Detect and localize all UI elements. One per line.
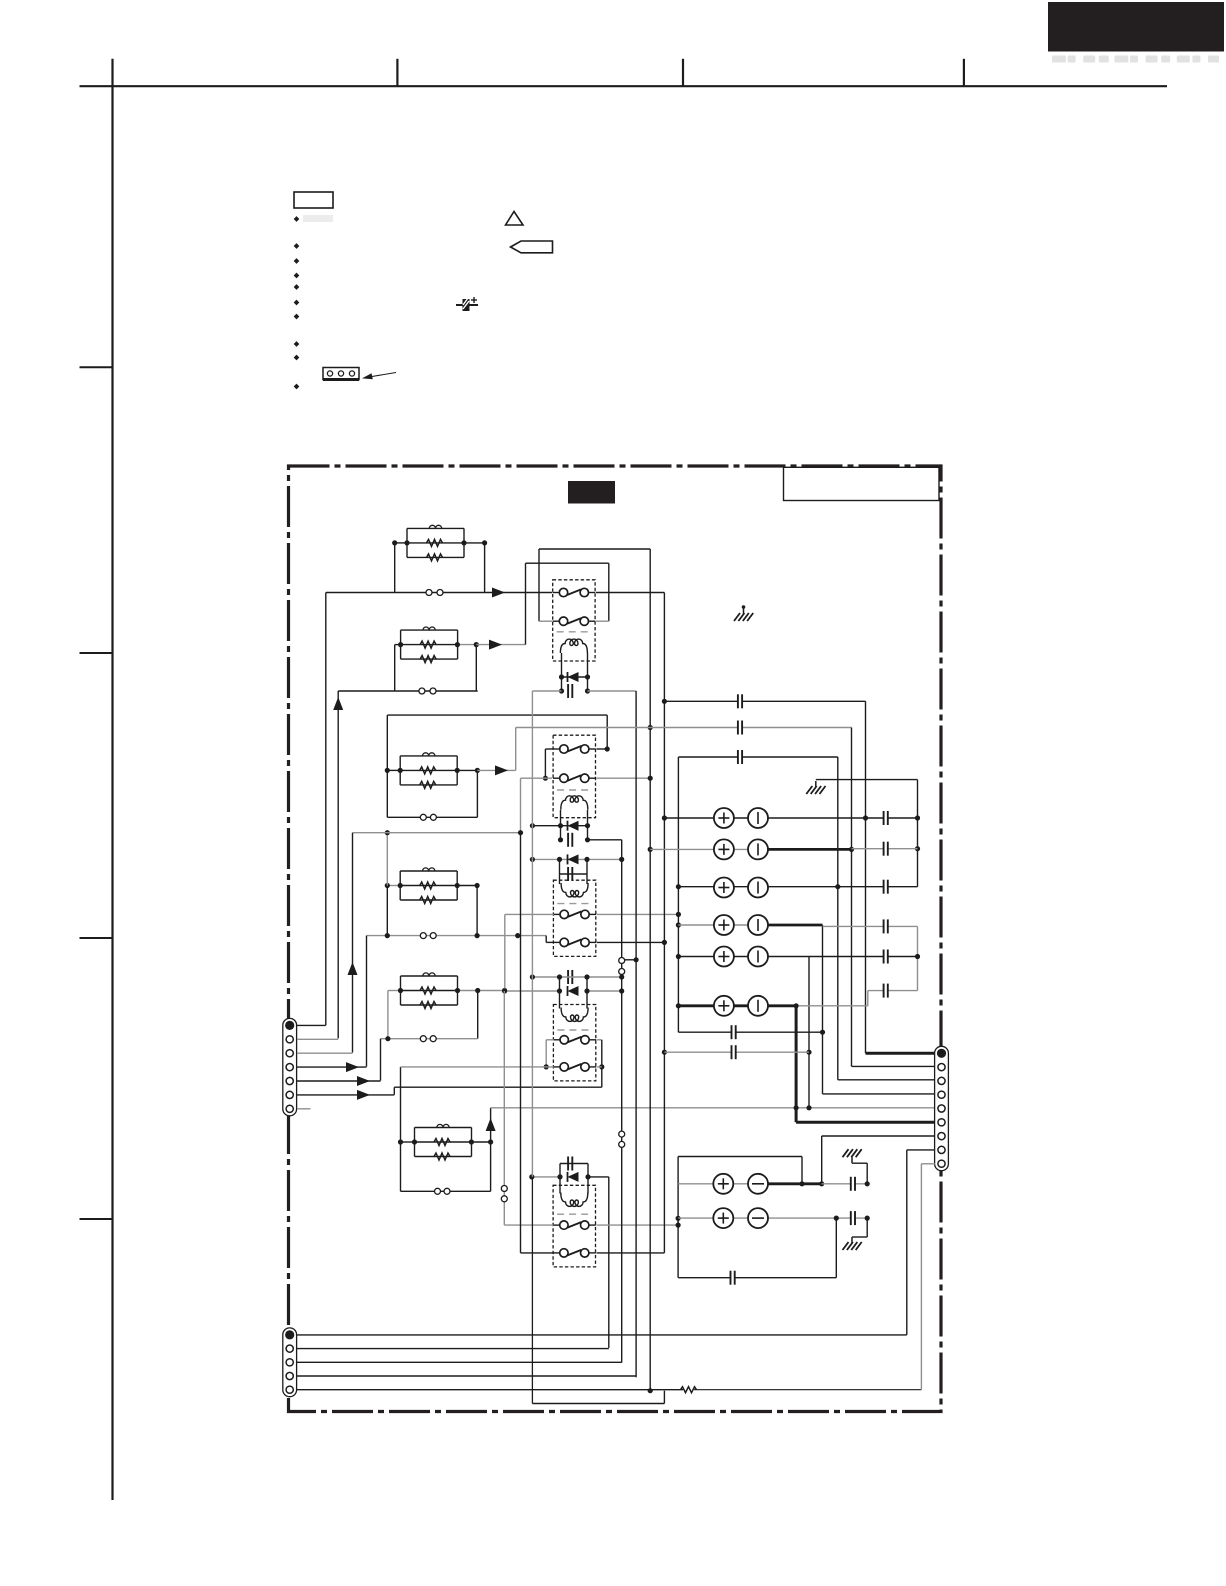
row H cap C22 bbox=[851, 1211, 854, 1225]
RL4 row1 right wire bbox=[597, 1039, 602, 1041]
RL2 row1 left step wire bbox=[545, 748, 553, 750]
bus 838 (cap row3 down to J2 pin3) bbox=[837, 757, 839, 1080]
cap C12 row (y727) grey bbox=[516, 727, 852, 729]
relay RL1 contact row 1 bbox=[553, 592, 564, 594]
FL2 right loop wire bbox=[475, 645, 477, 691]
grey rail to FL4 bbox=[353, 832, 523, 834]
relay RL4 contact row 2 bbox=[553, 1066, 564, 1068]
ground G4 bbox=[851, 1237, 853, 1243]
FL6 left vertical from relay RL4 row2 bbox=[400, 1067, 402, 1191]
RL5 snubber diode D5 bbox=[568, 1172, 579, 1182]
legend bullet 10 bbox=[294, 384, 300, 390]
legend bullet 5 bbox=[294, 284, 300, 290]
bus 532 (RL1 snubber down to bottom return) bbox=[531, 691, 533, 1177]
FL3 top rail wire to bus bbox=[387, 714, 607, 716]
row B indicator circles bbox=[714, 839, 734, 859]
top rule tick 3 bbox=[963, 59, 965, 86]
cap C11 row (y701) bbox=[664, 700, 865, 702]
row A wire bbox=[664, 817, 917, 819]
main rail 1 (FL1 row) bbox=[326, 592, 552, 594]
relay RL4 (dashed outline) bbox=[553, 1005, 595, 1081]
left rule tick 4 bbox=[80, 1218, 113, 1220]
relay RL2 (dashed outline) bbox=[553, 735, 595, 818]
RL5 snubber cap C5 bbox=[569, 1157, 572, 1171]
RL1 snubber cap C1 bbox=[569, 684, 572, 698]
J1 pin6 wire with arrow bbox=[297, 1094, 394, 1096]
filter block FL6 (inductor + 2 resistors) bbox=[415, 1127, 472, 1129]
FL5 left loop wire bbox=[387, 991, 389, 1039]
bus from J1 pin3 up to grey rail (with up arrow) bbox=[352, 833, 354, 1053]
row G cap C21 bbox=[851, 1177, 854, 1191]
filter block FL5 (inductor + 2 resistors) bbox=[401, 975, 458, 977]
schematic board border (dash-dot) bbox=[289, 466, 942, 1412]
J1 pin6 wire step and run to relay RL4 row2 right bbox=[393, 1087, 395, 1095]
legend triangle warning symbol bbox=[506, 212, 524, 226]
RL3 row1 wire (grey) bbox=[505, 913, 554, 915]
FL1 right loop wire bbox=[484, 543, 486, 593]
J1 pin4 wire with arrow bbox=[297, 1066, 367, 1068]
RL5 row1 wire bbox=[504, 1224, 553, 1226]
J3 pin2 wire bbox=[297, 1348, 609, 1350]
row C wire bbox=[678, 886, 837, 888]
wire grey rail up to RL2 row2 bbox=[520, 778, 522, 833]
relay RL1 (dashed outline) bbox=[553, 580, 595, 661]
legend arrow-left pentagon symbol bbox=[511, 241, 553, 253]
RL2 snubber cap C2 bbox=[569, 833, 572, 847]
bus 917 upper segment (caps right column) bbox=[917, 780, 919, 887]
bus 678 (cap row3 down to DEF cap rail) bbox=[677, 757, 679, 1032]
relay RL5 contact row 1 bbox=[553, 1224, 564, 1226]
top rule tick 2 bbox=[682, 59, 684, 86]
J2 pin3 wire bbox=[838, 1079, 935, 1081]
relay RL1 separator bbox=[557, 631, 591, 633]
J1 pin1 wire bbox=[297, 1024, 326, 1026]
bus 823 (row D down to J2 pin4) bbox=[822, 925, 824, 1094]
group box rows G/H left edge bbox=[677, 1157, 679, 1278]
FL5 mid-rail leads bbox=[388, 990, 401, 992]
row B wire bbox=[650, 848, 768, 850]
bottom cap C23 bbox=[731, 1271, 734, 1285]
wire RL5 diode row right down to J3 pin2 line bbox=[608, 1177, 610, 1348]
FL1 mid-rail leads bbox=[395, 542, 407, 544]
relay RL4 coil bbox=[561, 1008, 588, 1022]
RL5 coil leads up bbox=[559, 1177, 561, 1194]
relay RL1 coil bbox=[560, 639, 587, 653]
J2 pin4 wire bbox=[823, 1093, 936, 1095]
relay RL4 separator bbox=[557, 1029, 591, 1031]
left rule tick 1 bbox=[80, 366, 113, 368]
J3 pin5 wire (resistor line to J2 pin9) bbox=[297, 1389, 683, 1391]
FL3 right loop wire bbox=[476, 770, 478, 817]
relay RL4 contact row 1 bbox=[553, 1039, 564, 1041]
RL3 row2 wire right to bus664 bbox=[597, 941, 665, 943]
connector J2 (right, 9-pin) bbox=[935, 1046, 949, 1170]
J1 pin7 stub wire bbox=[297, 1108, 311, 1110]
FL4 mid-rail leads bbox=[387, 885, 400, 887]
J2 pin9 wire bbox=[921, 1163, 935, 1165]
RL5 row2 wire bbox=[521, 1252, 554, 1254]
ground G3 link bbox=[866, 1163, 868, 1184]
J2 pin2 wire bbox=[852, 1065, 936, 1067]
relay RL5 separator bbox=[557, 1213, 591, 1215]
group bottom cap rail bbox=[678, 1277, 836, 1279]
FL4 right loop wire bbox=[476, 886, 478, 936]
row C indicator circles bbox=[714, 878, 734, 898]
RL2 row2 wire (grey) bbox=[521, 777, 553, 779]
J3 pin3 wire bbox=[297, 1361, 622, 1363]
bus from J1 pin1 up to rail1 bbox=[325, 593, 327, 1026]
RL3 snubber cap C3 bbox=[569, 867, 572, 881]
bus 796 thick (row F down to J2 pin6) bbox=[795, 1006, 798, 1122]
legend bullet 8 bbox=[294, 341, 300, 347]
legend bullet 7 bbox=[294, 314, 300, 320]
legend box symbol bbox=[294, 192, 333, 208]
group box right edge bbox=[835, 1218, 837, 1278]
rail FL4 bottom / relay RL3 row2 feed bbox=[367, 935, 547, 937]
RL1 snubber wire left to bus532 bbox=[532, 690, 561, 692]
FL6 mid-rail leads bbox=[401, 1141, 415, 1143]
FL3 output wire with arrow bbox=[477, 769, 515, 771]
RL1 contact loop box bbox=[538, 563, 540, 621]
RL3 snubber diode D3 bbox=[532, 858, 621, 860]
row G wire bbox=[678, 1183, 768, 1185]
thick feed wire to J2 pin1 bbox=[866, 1052, 937, 1055]
relay RL3 coil bbox=[561, 883, 588, 897]
relay RL2 separator bbox=[557, 789, 591, 791]
legend bullet 9 bbox=[294, 355, 300, 361]
wire FL6 output to J2 pin5 (grey) bbox=[491, 1107, 935, 1109]
legend bullet 4 bbox=[294, 273, 300, 279]
RL4 coil leads up bbox=[559, 991, 561, 1009]
row F indicator circles bbox=[714, 996, 734, 1016]
FL6 bottom rail bbox=[401, 1190, 491, 1192]
FL5 right loop wire bbox=[477, 991, 479, 1039]
bus 622 (RL2 snubber down to J3 pin3) bbox=[621, 840, 623, 1363]
FL2 output wire with arrow bbox=[476, 644, 525, 646]
row E wire bbox=[678, 956, 809, 958]
wire FL3 up to cap row bbox=[515, 728, 517, 771]
DEF cap rail 2 (grey) bbox=[664, 1051, 809, 1053]
relay RL3 (dashed outline) bbox=[553, 880, 595, 956]
J2 pin7 wire and feed down to row G bbox=[822, 1135, 935, 1137]
group box rows G/H top edge bbox=[678, 1156, 802, 1158]
legend bullet 1 bbox=[294, 216, 300, 222]
FL1 left loop wire bbox=[394, 543, 396, 593]
bus 650 (RL1 loop top down to J3 pin5 line) bbox=[649, 549, 651, 1391]
relay RL3 separator bbox=[557, 903, 591, 905]
J2 pin8 wire bbox=[907, 1149, 935, 1151]
relay RL5 contact row 2 bbox=[553, 1252, 564, 1254]
J1 pin2 wire bbox=[297, 1038, 338, 1040]
bus 917 lower segment bbox=[917, 926, 919, 990]
bus 865 (cap row1 down to J2 pin1) bbox=[865, 701, 867, 1053]
left rule tick 2 bbox=[80, 652, 113, 654]
relay RL1 contact row 2 bbox=[553, 620, 564, 622]
RL1 snubber wire right to bus636 bbox=[588, 690, 637, 692]
RL2 snubber wire right to bus622 bbox=[588, 839, 622, 841]
RL3 coil leads up bbox=[559, 874, 561, 884]
RL1 outer loop top wire bbox=[539, 548, 650, 550]
row A indicator circles bbox=[714, 808, 734, 828]
ground G2 wire bbox=[816, 779, 918, 781]
top rule tick 1 bbox=[396, 59, 398, 86]
link RL5 row1 to row H bbox=[677, 1218, 679, 1225]
wire FL2 to relay RL1 box bbox=[525, 563, 527, 644]
board name black box bbox=[568, 481, 615, 504]
page rule horizontal top bbox=[80, 85, 1168, 87]
FL3 left vertical (top rail to bottom rail) bbox=[386, 715, 388, 817]
bus from J1 pin4 up to rail 935 bbox=[366, 936, 368, 1067]
RL3 row2 step from rail935 bbox=[545, 936, 547, 943]
FL2 left loop wire bbox=[394, 645, 396, 691]
FL3 bottom rail bbox=[387, 816, 477, 818]
bus 851 (cap row2 down to J2 pin2) bbox=[851, 728, 853, 1067]
relay RL5 coil bbox=[561, 1193, 588, 1207]
row D wire bbox=[678, 924, 768, 926]
FL6 output wire up with arrow bbox=[490, 1108, 492, 1142]
connector J3 (bottom left, 5-pin) bbox=[283, 1328, 297, 1397]
FL3 mid-rail leads bbox=[387, 769, 400, 771]
bus 636 (RL1 snubber right, down to J3 pin4) bbox=[635, 691, 637, 1377]
filter block FL3 (inductor + 2 resistors) bbox=[400, 755, 457, 757]
legend polarized capacitor symbol bbox=[456, 304, 478, 306]
filter block FL4 (inductor + 2 resistors) bbox=[400, 870, 457, 872]
filter block FL1 (inductor + 2 resistors) bbox=[407, 527, 464, 529]
bus 809 (row E down, joins grey 1108 line) bbox=[808, 957, 810, 1108]
J3 pin1 wire (to far right, up to J2 pin8) bbox=[297, 1334, 907, 1336]
bus from J1 pin2 up to FL2 bottom rail (with up arrow) bbox=[337, 691, 339, 1038]
bus 664 (rail1 right down to RL5 row2) bbox=[663, 593, 665, 1253]
connector J1 (left, 7-pin) bbox=[283, 1018, 297, 1115]
bus520 from grey rail down to RL5 row2 bbox=[520, 833, 522, 1253]
relay RL2 contact row 1 bbox=[553, 748, 564, 750]
relay RL5 (dashed outline) bbox=[553, 1185, 595, 1267]
wire up to J2 pin9 bbox=[920, 1164, 922, 1390]
DEF cap rail 1 bbox=[678, 1031, 822, 1033]
FL4 feed wire from grey rail bbox=[386, 833, 388, 886]
FL6 right loop wire bbox=[490, 1142, 492, 1191]
row H indicator circles bbox=[713, 1208, 733, 1228]
relay RL2 coil bbox=[561, 796, 588, 810]
relay RL2 contact row 2 bbox=[553, 777, 564, 779]
RL4 snubber diode D4 (fed from FL5) bbox=[568, 986, 579, 996]
RL4 row2 wire bbox=[401, 1066, 554, 1068]
resistor R31 bbox=[681, 1387, 697, 1393]
legend 3-pin connector symbol bbox=[323, 368, 359, 380]
ground G3 bbox=[851, 1157, 853, 1163]
bottom return wire from bus532 bbox=[532, 1403, 664, 1405]
bus from J1 pin5 up to FL5 bottom rail bbox=[380, 1039, 382, 1081]
bus504 from FL5 mid down to RL5 row1 bbox=[503, 991, 505, 1225]
legend bullet 3 bbox=[294, 258, 300, 264]
filter block FL2 (inductor + 2 resistors) bbox=[401, 629, 458, 631]
J1 pin3 wire bbox=[297, 1052, 353, 1054]
RL4 snubber cap C4 bbox=[569, 970, 572, 984]
link bus622 to bus636 bbox=[622, 959, 636, 961]
ground G1 (floating, upper middle) bbox=[742, 605, 746, 609]
ground G2 bbox=[815, 781, 817, 787]
RL1 row2 wire bbox=[539, 620, 552, 622]
row D indicator circles bbox=[714, 915, 734, 935]
ground G4 link bbox=[866, 1218, 868, 1237]
row H wire bbox=[678, 1217, 836, 1219]
legend connector pointer arrow bbox=[366, 373, 396, 378]
legend bullet 6 bbox=[294, 300, 300, 306]
FL2 bottom rail bbox=[338, 690, 478, 692]
relay RL3 contact row 2 bbox=[553, 941, 564, 943]
RL2 row1 right wire to bus607 bbox=[597, 748, 608, 750]
page rule vertical left bbox=[111, 59, 113, 1500]
row G indicator circles bbox=[713, 1174, 733, 1194]
FL4 left loop wire bbox=[386, 886, 388, 936]
FL2 mid-rail leads bbox=[395, 644, 401, 646]
bus504 corner down from RL3 row1 bbox=[504, 914, 506, 991]
legend bullet 2 bbox=[294, 243, 300, 249]
RL2 snubber diode D2 bbox=[532, 825, 587, 827]
RL1 outer left vertical bbox=[538, 549, 540, 563]
RL2 coil leads down bbox=[560, 810, 562, 840]
rail1 continuation through relay RL1 contacts bbox=[596, 592, 664, 594]
RL1 snubber diode D1 bbox=[562, 676, 588, 678]
RL4 row1 left step wire bbox=[546, 1039, 554, 1041]
row E indicator circles bbox=[714, 947, 734, 967]
feed wire down to row G bbox=[801, 1157, 803, 1184]
row F wire bbox=[678, 1004, 796, 1007]
FL5 bottom rail bbox=[381, 1038, 478, 1040]
wire bus top rail down to relay RL2 row1 bbox=[606, 715, 608, 749]
J1 pin5 wire with arrow bbox=[297, 1080, 381, 1082]
title block black box top right bbox=[1048, 2, 1224, 52]
cap C13 row (y757) bbox=[678, 756, 837, 758]
RL1 coil leads down bbox=[561, 653, 563, 691]
J3 pin4 wire bbox=[297, 1375, 636, 1377]
relay RL3 contact row 1 bbox=[553, 913, 564, 915]
top-right note box bbox=[784, 467, 940, 500]
row F corner up to cap bbox=[867, 991, 869, 1006]
J2 pin6 wire thick bbox=[796, 1121, 935, 1124]
faint title text under box bbox=[1052, 56, 1219, 63]
legend faint text row 1 bbox=[303, 215, 333, 222]
left rule tick 3 bbox=[80, 937, 113, 939]
